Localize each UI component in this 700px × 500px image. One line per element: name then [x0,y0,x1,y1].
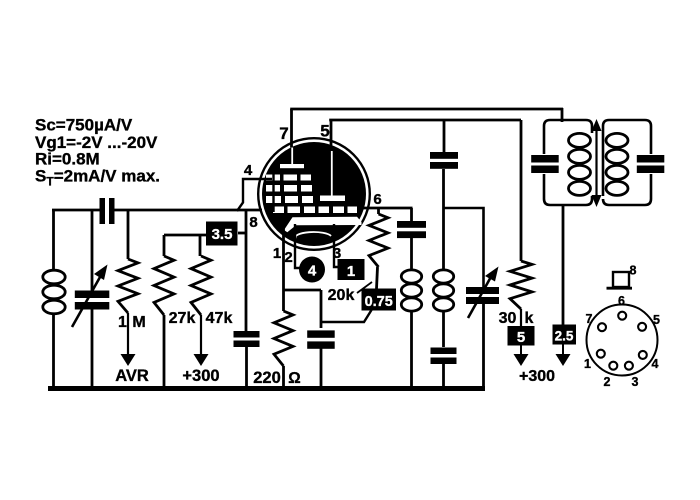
wire: IF primary drop x=411.5 [410,208,413,221]
wire: C5 to primary coil [410,238,413,271]
wire: pin 6 lead to IF transformer [360,207,413,210]
output transformer T1 primary loop [544,120,592,205]
wire: R2 top lead [163,235,166,256]
wire: plate wire top (pin7 to output transformer) [290,108,563,111]
terminal box 1 [338,259,365,280]
svg-text:1: 1 [584,357,591,371]
svg-text:2: 2 [604,375,611,389]
tube V1 anode bar (pin 5 section) [320,196,345,202]
tube V1 grid row 3 [266,196,281,203]
arrow below box 2.5 [562,345,564,356]
wire: C3 bottom lead [245,347,248,389]
svg-text:1: 1 [118,314,127,331]
wire: cathode cap riser x=321 [320,290,323,328]
tube V1 pin5 internal lead (white) [331,151,333,196]
socket hole 7 [598,323,606,331]
wire: C6 down to secondary [442,169,445,271]
wire: L2 bottom lead to bus [410,310,413,389]
inductor T1 secondary loops [606,133,628,147]
resistor R6 30k [510,261,532,309]
inductor L1 antenna coil [43,270,65,284]
svg-text:8: 8 [249,214,257,231]
wire: pin 7 riser [290,109,293,148]
arrow to +300 (R3) [194,354,209,366]
svg-text:6: 6 [373,191,381,208]
coupling arrow T1 [595,127,597,199]
wire: screen wire y=120 [329,119,521,122]
inductor L3 IF secondary [433,270,453,283]
capacitor C5 IF primary [397,221,426,228]
svg-text:0.75: 0.75 [365,294,393,310]
svg-text:1: 1 [347,263,355,280]
socket hole 5 [638,323,646,331]
svg-text:4: 4 [308,263,317,280]
svg-text:20k: 20k [328,287,355,304]
wire: antenna coil bottom lead [52,313,55,389]
socket hole 3 [625,362,633,370]
svg-text:1: 1 [273,245,281,262]
socket hole 2 [609,362,617,370]
svg-text:7: 7 [279,124,288,143]
wire: pin 5 riser [330,120,333,146]
svg-text:220: 220 [253,369,281,387]
wire: screen/secondary riser x=444 [443,120,446,152]
svg-text:8: 8 [630,264,637,278]
resistor R2 27k [154,256,174,315]
svg-text:5: 5 [517,329,525,346]
svg-text:3.5: 3.5 [212,226,233,243]
socket hole 4 [639,351,647,359]
tube V1 heater arc [295,232,331,238]
ground bus [48,386,485,391]
svg-text:+300: +300 [519,368,555,385]
terminal box 2.5 [553,325,577,345]
wire: tuning branch y=208 to x=483 [444,208,484,287]
inductor T1 primary loops [569,133,591,147]
tube V1 inner black disc [262,142,366,246]
svg-text:5: 5 [653,313,660,327]
svg-text:30: 30 [499,310,517,327]
wire: cathode branch vertical x=246 [245,210,248,331]
variable-capacitor arrow C1 [72,274,102,328]
wire: box 3.5 to cathode node [238,232,247,235]
svg-text:27k: 27k [169,310,196,327]
svg-text:2.5: 2.5 [555,329,574,344]
wire: C7 to bus [442,364,445,389]
capacitor C3 bypass [234,331,260,338]
wire: pin 2 lead [295,224,300,268]
terminal box 0.75 [362,289,397,311]
terminal box 3.5 [206,222,238,246]
tube V1 octode envelope outer circle [258,138,370,250]
capacitor C1 variable tuning capacitor [75,291,110,299]
wire: antenna coil top lead [52,210,55,271]
capacitor C7 secondary series [431,348,457,355]
arrow to AVR [121,354,136,366]
capacitor C10 secondary [637,155,665,163]
socket hole 1 [597,350,605,358]
terminal box 5 [508,326,535,346]
inductor L2 IF primary [401,270,421,283]
wire: R3 bottom lead [200,315,202,355]
output transformer T1 secondary loop [603,120,651,205]
tube V1 cathode [284,217,362,232]
svg-text:5: 5 [320,122,329,141]
resistor R1 1M grid leak [127,210,130,259]
wire: C8 bottom lead [482,304,485,389]
tube V1 anode bar (pin 7 section) [280,164,304,168]
resistor R3 47k [191,256,211,315]
wire: 20k bottom return y=321 [321,310,372,322]
wire: R2 bottom lead to bus [163,315,166,389]
variable-capacitor arrow C8 [468,275,492,318]
tube V1 grid row 4 wide [273,207,284,214]
svg-text:M: M [132,314,145,331]
svg-text:ST=2mA/V max.: ST=2mA/V max. [35,167,160,189]
wire: R3 top lead [199,235,202,256]
svg-text:Ω: Ω [288,370,300,387]
svg-text:4: 4 [652,357,659,371]
wire: pin 1 lead [282,227,285,311]
svg-text:6: 6 [618,294,625,308]
wire: R4 bottom lead [282,366,285,389]
wire: screen divider top wire y=235 [164,234,207,237]
capacitor C9 primary [531,155,559,163]
resistor R4 220 ohm cathode [274,311,293,366]
socket hole 6 [618,312,626,320]
svg-text:2: 2 [284,249,292,266]
svg-text:+300: +300 [182,367,219,385]
svg-text:Sc=750µA/V: Sc=750µA/V [35,116,133,135]
svg-text:k: k [525,310,534,327]
wire: pin 3 lead [334,224,339,267]
wire: R6 bottom through label [520,309,522,327]
wire: R1 bottom lead to AVR arrow [127,313,129,355]
capacitor C6 [430,152,458,159]
capacitor C8 variable padder [466,287,499,294]
wire: tuning cap branch riser x=92 [91,210,94,291]
wire: L3 bottom lead [442,310,445,347]
tube socket circle [587,305,658,376]
resistor R5 20k [377,208,380,214]
capacitor C2 series coupling cap (vertical plates) [100,198,106,224]
svg-text:47k: 47k [206,310,233,327]
wire: pin 4 grid lead [237,179,272,211]
terminal circle 4 [299,257,325,283]
tube V1 grid support line left [272,174,274,212]
svg-text:4: 4 [244,162,253,179]
tube V1 grid row 2 [266,185,280,192]
svg-text:7: 7 [586,312,593,326]
tube V1 grid row 1 [266,175,280,181]
arrow to +300 (box 5) [520,346,522,356]
wire: output transformer bottom lead to box 2.5 [562,204,565,325]
wire: 30k riser from screen wire [520,120,523,261]
svg-text:AVR: AVR [115,367,149,385]
tube V1 pin7 internal lead (white) [291,148,293,165]
wire: main grid wire left, y=210 [52,209,100,212]
wire: C4 bottom lead [320,349,323,390]
capacitor C4 cathode bypass [307,330,335,337]
wire: cathode node horizontal y=290 [284,289,322,292]
tube socket top-cap symbol [613,272,629,287]
wire: tuning cap bottom lead [91,309,94,389]
svg-text:3: 3 [632,375,639,389]
